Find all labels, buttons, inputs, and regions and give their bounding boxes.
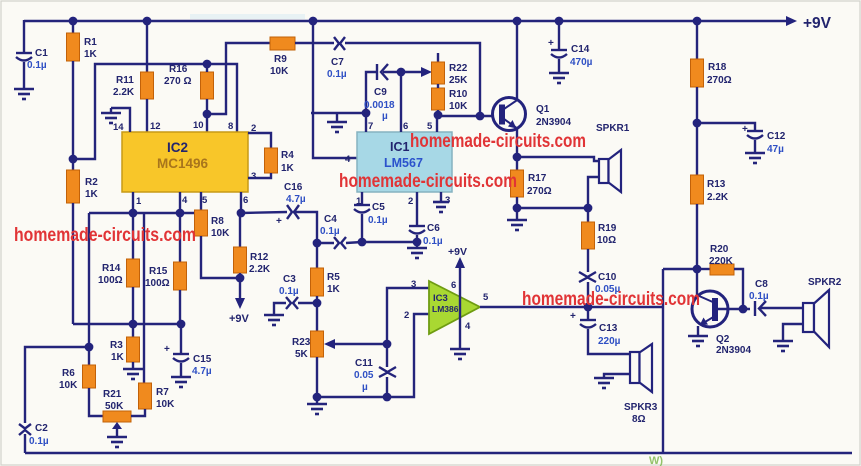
capacitor C16	[241, 182, 317, 243]
svg-text:C4: C4	[324, 214, 337, 225]
pin 6 of IC1	[397, 68, 409, 132]
resistor R11	[113, 17, 154, 132]
capacitor C12	[697, 123, 786, 155]
speaker SPKR3	[604, 344, 658, 425]
wire C5 to C6 node	[362, 241, 417, 243]
svg-text:1: 1	[136, 196, 142, 207]
wire Q1 emitter node	[513, 129, 599, 161]
svg-text:50K: 50K	[105, 401, 124, 412]
svg-text:100Ω: 100Ω	[98, 275, 123, 286]
resistor R1	[67, 17, 98, 159]
svg-text:C3: C3	[283, 274, 296, 285]
svg-text:2: 2	[408, 196, 413, 207]
svg-text:5K: 5K	[295, 349, 309, 360]
svg-text:4: 4	[465, 321, 471, 332]
capacitor C15	[164, 324, 212, 377]
capacitor C3	[274, 274, 317, 315]
svg-text:8Ω: 8Ω	[632, 414, 646, 425]
svg-text:SPKR2: SPKR2	[808, 277, 842, 288]
svg-text:R10: R10	[449, 89, 468, 100]
svg-text:0.1µ: 0.1µ	[327, 69, 347, 80]
resistor R4	[248, 133, 295, 178]
svg-text:C15: C15	[193, 354, 212, 365]
svg-text:C8: C8	[755, 279, 768, 290]
svg-text:0.1µ: 0.1µ	[368, 215, 388, 226]
svg-text:2: 2	[404, 310, 409, 321]
svg-text:25K: 25K	[449, 75, 468, 86]
wire Q2 base node	[716, 305, 750, 314]
svg-text:0.1µ: 0.1µ	[320, 226, 340, 237]
potentiometer R21	[103, 389, 131, 437]
svg-text:220K: 220K	[709, 256, 734, 267]
svg-text:10K: 10K	[211, 228, 230, 239]
ground below C6	[407, 248, 427, 258]
capacitor C7	[327, 37, 347, 80]
svg-text:2.2K: 2.2K	[249, 264, 271, 275]
resistor R20	[697, 244, 743, 308]
speaker SPKR1	[588, 123, 630, 208]
svg-text:R22: R22	[449, 63, 468, 74]
wire R16 bottom to R9	[207, 43, 270, 114]
svg-text:1K: 1K	[85, 189, 99, 200]
svg-text:R8: R8	[211, 216, 224, 227]
svg-text:homemade-circuits.com: homemade-circuits.com	[522, 289, 700, 310]
capacitor C11	[354, 344, 396, 401]
ground below R21 wiper	[107, 437, 127, 447]
svg-text:µ: µ	[382, 111, 388, 122]
wire +9V top rail	[24, 16, 797, 26]
svg-text:+9V: +9V	[448, 246, 467, 258]
resistor R3	[110, 324, 140, 369]
op-amp IC3 LM386	[429, 281, 480, 334]
svg-text:C9: C9	[374, 87, 387, 98]
svg-text:+: +	[164, 344, 170, 355]
svg-text:MC1496: MC1496	[157, 156, 209, 171]
wire C2 branch	[25, 343, 93, 423]
wire R2-top to IC2 pin8 and R16 top	[73, 64, 237, 159]
potentiometer R22	[432, 53, 469, 86]
svg-text:1: 1	[356, 196, 362, 207]
svg-text:0.1µ: 0.1µ	[27, 60, 47, 71]
wire R23 wiper	[324, 339, 391, 349]
resistor R13	[691, 123, 729, 273]
resistor R12	[234, 192, 271, 282]
pin 5 of IC1	[427, 111, 442, 132]
svg-text:R21: R21	[103, 389, 122, 400]
svg-text:W): W)	[649, 455, 663, 466]
svg-text:470µ: 470µ	[570, 57, 593, 68]
transistor Q2	[692, 291, 751, 356]
wire IC1 pin7 bias with ground	[311, 113, 366, 122]
svg-text:4.7µ: 4.7µ	[286, 194, 306, 205]
svg-text:R19: R19	[598, 223, 617, 234]
svg-text:6: 6	[403, 121, 408, 132]
svg-text:12: 12	[150, 121, 161, 132]
svg-text:IC1: IC1	[390, 140, 410, 154]
speaker SPKR2	[783, 277, 842, 347]
svg-text:6: 6	[451, 280, 456, 291]
ground below C12	[745, 153, 765, 163]
svg-text:SPKR1: SPKR1	[596, 123, 630, 134]
resistor R16	[164, 60, 214, 132]
svg-text:R13: R13	[707, 179, 726, 190]
svg-text:R9: R9	[274, 54, 287, 65]
ground below SPKR3	[594, 378, 614, 388]
resistor R6	[59, 365, 103, 416]
svg-text:R17: R17	[528, 173, 547, 184]
svg-text:R6: R6	[62, 368, 75, 379]
capacitor C4	[317, 214, 362, 249]
svg-text:10K: 10K	[156, 399, 175, 410]
ic IC2 MC1496	[122, 132, 248, 192]
svg-text:C7: C7	[331, 57, 344, 68]
wire C7 to Q1 base	[345, 43, 480, 116]
resistor R2	[67, 155, 99, 324]
svg-text:R11: R11	[116, 75, 134, 86]
svg-text:SPKR3: SPKR3	[624, 402, 658, 413]
svg-text:0.0018: 0.0018	[364, 100, 395, 111]
wire lower bias bus	[73, 320, 185, 329]
svg-text:Q1: Q1	[536, 104, 550, 115]
svg-text:6: 6	[243, 195, 248, 206]
svg-text:+: +	[570, 311, 576, 322]
svg-text:IC3: IC3	[433, 293, 448, 304]
wire wiper to IC3 pin3	[387, 288, 429, 344]
svg-text:+: +	[548, 38, 554, 49]
svg-text:10K: 10K	[59, 380, 78, 391]
svg-text:C1: C1	[35, 48, 48, 59]
svg-text:C16: C16	[284, 182, 303, 193]
pin 4 of IC3 with ground	[465, 321, 471, 332]
svg-text:270Ω: 270Ω	[527, 186, 552, 197]
capacitor C2	[19, 423, 49, 453]
junction node C4-R5	[313, 239, 322, 248]
transistor Q1	[493, 98, 572, 131]
svg-text:10Ω: 10Ω	[597, 235, 616, 246]
capacitor C6	[409, 192, 443, 248]
svg-text:C5: C5	[372, 202, 385, 213]
svg-text:+: +	[742, 124, 748, 135]
svg-text:C12: C12	[767, 131, 786, 142]
svg-text:R18: R18	[708, 62, 727, 73]
ground below C3	[264, 315, 284, 325]
svg-text:+: +	[276, 216, 282, 227]
svg-text:0.1µ: 0.1µ	[279, 286, 299, 297]
capacitor C10	[579, 272, 620, 311]
wire R13 node to collector branch	[663, 268, 697, 270]
resistor R17	[511, 157, 552, 212]
pin 14 of IC2 with ground	[111, 108, 130, 133]
svg-text:R20: R20	[710, 244, 729, 255]
capacitor C9	[364, 64, 401, 122]
svg-text:C10: C10	[598, 272, 617, 283]
ground below C14	[549, 73, 569, 83]
svg-text:+9V: +9V	[229, 313, 250, 325]
ground below C1	[14, 89, 34, 99]
wire bottom 0V rail	[25, 452, 852, 454]
svg-text:0.1µ: 0.1µ	[29, 436, 49, 447]
wire collector branch vertical	[662, 269, 664, 453]
svg-text:C6: C6	[427, 223, 440, 234]
pin 5 of IC3 output wire	[480, 292, 663, 307]
ground below R17	[516, 208, 518, 220]
svg-text:270Ω: 270Ω	[707, 75, 732, 86]
svg-text:220µ: 220µ	[598, 336, 621, 347]
svg-text:IC2: IC2	[167, 140, 188, 155]
svg-text:2.2K: 2.2K	[707, 192, 729, 203]
svg-text:R7: R7	[156, 387, 169, 398]
svg-text:1K: 1K	[84, 49, 98, 60]
svg-text:4: 4	[182, 195, 188, 206]
wire R9 to C7	[295, 42, 334, 44]
svg-text:homemade-circuits.com: homemade-circuits.com	[339, 171, 517, 192]
svg-text:7: 7	[368, 121, 373, 132]
resistor R19	[582, 204, 617, 272]
capacitor C8	[749, 279, 803, 316]
ground on pin7 wire	[327, 122, 347, 132]
svg-text:homemade-circuits.com: homemade-circuits.com	[14, 225, 196, 246]
svg-text:3: 3	[411, 279, 416, 290]
svg-text:R1: R1	[84, 37, 97, 48]
svg-text:µ: µ	[362, 382, 368, 393]
svg-text:LM386: LM386	[432, 304, 459, 314]
svg-text:C2: C2	[35, 423, 48, 434]
svg-text:1K: 1K	[281, 163, 295, 174]
resistor R5	[311, 243, 341, 331]
resistor R8	[195, 192, 240, 278]
svg-text:5: 5	[483, 292, 489, 303]
svg-text:3: 3	[251, 171, 256, 182]
wire Q1 collector to rail	[513, 17, 522, 99]
svg-text:14: 14	[113, 122, 124, 133]
svg-text:R15: R15	[149, 266, 168, 277]
pin 3 of IC1 with ground	[441, 192, 450, 206]
capacitor C1	[16, 20, 48, 89]
ground below R3	[123, 369, 143, 379]
potentiometer R23	[292, 331, 324, 401]
svg-text:R16: R16	[169, 64, 188, 75]
svg-text:R14: R14	[102, 263, 121, 274]
svg-text:10K: 10K	[270, 66, 289, 77]
svg-text:R5: R5	[327, 272, 340, 283]
ic IC1 LM567	[357, 132, 452, 192]
wire bottom feedback to IC3 pin2	[317, 314, 429, 397]
svg-text:2.2K: 2.2K	[113, 87, 135, 98]
wire +9V rail to IC1 pin4	[309, 17, 357, 165]
capacitor C14	[548, 17, 593, 73]
resistor R14	[98, 213, 140, 324]
svg-text:8: 8	[228, 121, 233, 132]
ground below C15	[171, 377, 191, 387]
svg-text:C14: C14	[571, 44, 590, 55]
capacitor C13	[570, 307, 630, 354]
svg-text:270 Ω: 270 Ω	[164, 76, 191, 87]
svg-text:4: 4	[345, 154, 351, 165]
pin 7 of IC1	[362, 72, 377, 132]
svg-text:R12: R12	[250, 252, 269, 263]
resistor R7	[131, 383, 175, 416]
svg-text:Q2: Q2	[716, 334, 730, 345]
ground below R23	[316, 397, 318, 404]
svg-text:3: 3	[445, 195, 450, 206]
pin 6 of IC3 with +9V arrow	[448, 246, 467, 349]
wire pin4 bus drop to R7	[143, 213, 145, 383]
svg-text:4.7µ: 4.7µ	[192, 366, 212, 377]
resistor R10	[432, 84, 469, 115]
svg-text:homemade-circuits.com: homemade-circuits.com	[410, 131, 586, 152]
svg-text:+9V: +9V	[803, 15, 832, 32]
resistor R9	[270, 37, 295, 77]
ground below Q2 emitter	[688, 336, 708, 346]
svg-text:10K: 10K	[449, 101, 468, 112]
svg-text:C13: C13	[599, 323, 618, 334]
resistor R15	[145, 213, 187, 324]
svg-text:0.05: 0.05	[354, 370, 374, 381]
wire R17 bottom to R19 top	[517, 207, 588, 209]
svg-text:R3: R3	[110, 340, 123, 351]
svg-text:2N3904: 2N3904	[716, 345, 751, 356]
wire wiper arrow to R22	[401, 67, 432, 77]
wire Q2 collector	[696, 269, 698, 295]
resistor R18	[691, 17, 732, 128]
svg-text:R23: R23	[292, 337, 311, 348]
node +9V below R12	[229, 278, 250, 325]
svg-text:0.1µ: 0.1µ	[423, 236, 443, 247]
svg-text:R2: R2	[85, 177, 98, 188]
svg-text:R4: R4	[281, 150, 294, 161]
svg-text:10: 10	[193, 120, 204, 131]
svg-text:47µ: 47µ	[767, 144, 784, 155]
svg-text:LM567: LM567	[384, 156, 423, 170]
svg-text:1K: 1K	[111, 352, 125, 363]
wire pin5 to Q1 base	[438, 112, 499, 121]
svg-text:2N3904: 2N3904	[536, 117, 571, 128]
ground below SPKR2	[773, 341, 793, 351]
svg-text:0.1µ: 0.1µ	[749, 291, 769, 302]
svg-text:1K: 1K	[327, 284, 341, 295]
svg-text:C11: C11	[355, 358, 373, 369]
svg-text:5: 5	[202, 195, 208, 206]
wire pin1 bus drop to R6/C2	[88, 213, 90, 365]
wire IC2 pin1 pin4 bus	[89, 192, 194, 217]
capacitor C5	[354, 192, 388, 246]
svg-text:100Ω: 100Ω	[145, 278, 170, 289]
